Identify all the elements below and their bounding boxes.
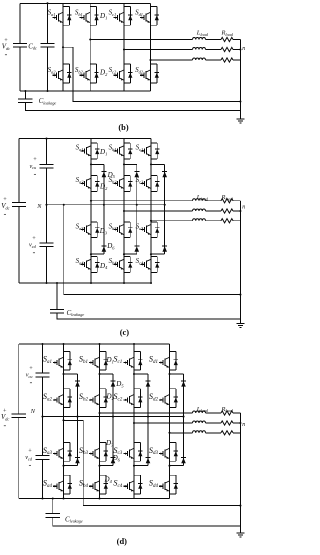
node: leg a on DC- rail (c): [90, 282, 92, 284]
wire: leg a collector riser (d): [63, 344, 65, 352]
node: leg a lower clamp junction (c): [90, 253, 92, 255]
wire: leg a S3-S4 link (d): [63, 461, 65, 475]
inductor L_load phase 2 (d): [193, 421, 206, 423]
wire: leg b lower clamp stub (d): [100, 465, 114, 467]
resistor R_load phase 3 (b): [221, 58, 233, 62]
node: leg a midpoint tap (d): [62, 419, 64, 421]
node: leg a clamp on N bus (d): [76, 416, 78, 418]
node: leg b clamp on N bus (d): [112, 416, 114, 418]
svg-text:Sb2: Sb2: [79, 392, 89, 402]
wire: leg d upper clamp stub (d): [170, 373, 184, 375]
wire: leg d upper clamp column (d): [183, 374, 185, 417]
wire: leg d lower clamp stub (d): [170, 465, 184, 467]
wire: load neutral vertical (c): [239, 201, 241, 323]
svg-text:+: +: [32, 235, 36, 242]
svg-text:D5: D5: [115, 380, 124, 388]
ground (b): [236, 119, 244, 123]
wire: Cdc column upper (b): [47, 3, 49, 43]
svg-text:Sb1: Sb1: [75, 8, 83, 16]
node: neutral tap junction (c): [63, 204, 65, 206]
clamp diode lower leg d (d): [181, 458, 186, 464]
wire: phase 3 to neutral node (b): [233, 59, 240, 61]
svg-text:Sd1: Sd1: [149, 355, 158, 365]
node: dc-link bottom (d): [41, 497, 43, 499]
capacitor C_leakage (b): [18, 99, 32, 103]
wire: leg a S3-S4 link (c): [90, 238, 92, 257]
node: leg c lower clamp junction (d): [133, 465, 135, 467]
node: neutral line junction (d): [239, 505, 241, 507]
wire: between L and R phase 1 (d): [206, 412, 222, 414]
wire: leg a upper clamp column (c): [103, 164, 105, 204]
node: leg d clamp on N bus (d): [182, 416, 184, 418]
wire: phase c output line (d): [134, 422, 193, 424]
wire: leg a to load neutral line (d): [64, 420, 241, 505]
wire: neutral clamp bus (d): [43, 416, 184, 418]
wire: phase b output line (d): [100, 412, 193, 414]
wire: leg a emitter to rail (c): [90, 272, 92, 283]
wire: phase 3 to neutral (c): [233, 220, 240, 222]
node: leg c clamp on N bus (c): [164, 204, 166, 206]
clamp diode upper leg b (c): [134, 171, 139, 177]
wire: leg a lower clamp stub (d): [64, 465, 78, 467]
node: leg a upper clamp junction (d): [62, 373, 64, 375]
IGBT S_b3 with antiparallel diode (d): [89, 443, 108, 462]
IGBT S_d1 with antiparallel diode (b): [140, 7, 159, 26]
node: leg d output (b): [149, 59, 151, 61]
wire: down to C_leakage (d): [52, 499, 54, 514]
IGBT S_c3 with antiparallel diode (c): [140, 222, 159, 238]
svg-text:Sa4: Sa4: [76, 257, 85, 265]
wire: leg b S1-S2 link (c): [123, 159, 125, 176]
IGBT S_b4 with antiparallel diode (d): [89, 475, 108, 494]
wire: leg c lower clamp stub (d): [134, 465, 148, 467]
resistor R_load phase 3 (c): [221, 219, 233, 223]
IGBT S_d3 with antiparallel diode (d): [159, 443, 178, 462]
node: leg b clamp on N bus (c): [136, 204, 138, 206]
wire: mid dc-link column (d): [42, 377, 44, 456]
clamp diode lower leg a (d): [75, 458, 80, 464]
wire: leg c collector riser (d): [133, 344, 135, 352]
wire: leg b collector riser (b): [89, 3, 91, 6]
wire: upper dc-link column (d): [42, 344, 44, 373]
wire: C_leakage to ground line (b): [25, 103, 240, 111]
node n junction (c): [239, 210, 241, 212]
wire: between L and R phase 2 (d): [206, 422, 222, 424]
wire: leg d lower clamp column (d): [183, 417, 185, 466]
wire: between L and R phase 3 (c): [206, 220, 222, 222]
svg-text:(b): (b): [118, 123, 128, 132]
svg-text:Cleakage: Cleakage: [67, 309, 85, 317]
svg-text:Cdc: Cdc: [28, 42, 37, 50]
wire: phase c output line (c): [151, 220, 193, 222]
inductor L_load phase 1 (d): [193, 411, 206, 413]
wire: left source column lower (c): [18, 206, 20, 283]
capacitor v_cu (d): [35, 373, 49, 377]
wire: leg b collector riser (d): [99, 344, 101, 352]
node: dc-link bottom (c): [45, 282, 47, 284]
wire: leg b emitter to rail (d): [99, 494, 101, 499]
wire: phase d output line (b): [151, 59, 193, 61]
IGBT S_d1 with antiparallel diode (d): [159, 352, 178, 371]
wire: DC+ top rail (b): [20, 2, 151, 4]
wire: leg d collector riser (b): [150, 3, 152, 6]
IGBT S_a3 with antiparallel diode (c): [80, 222, 99, 238]
wire: leg b collector riser (c): [123, 139, 125, 144]
node: leg b output (c): [123, 210, 125, 212]
wire: lower dc-link column (c): [46, 247, 48, 284]
wire: leg c midpoint wire (c): [150, 191, 152, 221]
wire: leg b emitter to rail (b): [89, 83, 91, 91]
svg-text:n: n: [242, 46, 245, 52]
IGBT S_c3 with antiparallel diode (d): [123, 443, 142, 462]
IGBT S_a2 with antiparallel diode (c): [80, 176, 99, 192]
svg-text:n: n: [242, 422, 245, 428]
IGBT S_c4 with antiparallel diode (d): [123, 475, 142, 494]
wire: leg a lower clamp stub (c): [91, 253, 104, 255]
wire: DC- bottom rail (d): [19, 498, 170, 500]
wire: DC- bottom rail (b): [20, 90, 151, 92]
svg-text:N: N: [36, 203, 42, 210]
wire: leg a S1-S2 link (d): [63, 370, 65, 389]
wire: leg c upper clamp column (c): [164, 164, 166, 204]
wire: leg c S3-S4 link (c): [150, 238, 152, 257]
IGBT S_b4 with antiparallel diode (c): [113, 257, 132, 273]
svg-text:n: n: [242, 205, 245, 211]
node: leg b on DC- rail (c): [123, 282, 125, 284]
node: dc-link top (d): [41, 343, 43, 345]
wire: neutral clamp bus (c): [47, 204, 165, 206]
IGBT S_a1 with antiparallel diode (d): [53, 352, 72, 371]
node: leg b on DC- rail (d): [98, 497, 100, 499]
wire: leg d collector riser (d): [169, 344, 171, 352]
wire: leg c collector riser (c): [150, 139, 152, 144]
wire: leg b S3-S4 link (c): [123, 238, 125, 257]
source Vdc (b): [13, 43, 27, 47]
wire: leg b S1-S2 link (d): [99, 370, 101, 389]
node: leg a midpoint (b): [62, 46, 64, 48]
node: neutral line junction (c): [239, 294, 241, 296]
clamp diode upper leg d (d): [181, 381, 186, 387]
svg-text:+: +: [28, 447, 32, 454]
wire: leg b lower clamp stub (c): [124, 253, 137, 255]
resistor R_load phase 1 (b): [221, 37, 233, 41]
wire: leg a upper clamp stub (d): [64, 373, 78, 375]
wire: leg b emitter to rail (c): [123, 272, 125, 283]
IGBT S_c1 with antiparallel diode (c): [140, 143, 159, 159]
wire: phase b output line (b): [90, 39, 192, 41]
inductor L_load phase 2 (b): [193, 47, 206, 49]
svg-text:Lload: Lload: [196, 29, 209, 36]
clamp diode lower leg b (d): [111, 458, 116, 464]
node: leg c clamp on N bus (d): [147, 416, 149, 418]
IGBT S_b2 with antiparallel diode (c): [113, 176, 132, 192]
svg-text:Sb1: Sb1: [109, 144, 117, 152]
wire: left DC source column lower (b): [19, 47, 21, 91]
svg-text:Sc2: Sc2: [109, 66, 117, 74]
svg-text:(d): (d): [117, 537, 127, 546]
wire: between L and R phase 1 (b): [206, 39, 222, 41]
node: leg c output (d): [133, 422, 135, 424]
wire: leg d emitter to rail (d): [169, 494, 171, 499]
capacitor v_cd (d): [35, 456, 49, 460]
IGBT S_c1 with antiparallel diode (b): [113, 7, 132, 26]
capacitor C_leakage (c): [50, 310, 64, 314]
svg-text:D4: D4: [99, 262, 108, 270]
node: leg d output (d): [168, 432, 170, 434]
svg-text:+: +: [33, 156, 37, 163]
wire: between L and R phase 3 (d): [206, 432, 222, 434]
wire: Cdc column lower (b): [47, 47, 49, 91]
clamp diode lower leg c (c): [162, 246, 167, 252]
IGBT S_a2 with antiparallel diode (b): [52, 64, 71, 83]
svg-text:Sd3: Sd3: [149, 446, 159, 456]
svg-text:-: -: [5, 50, 8, 59]
svg-text:Rload: Rload: [221, 406, 234, 413]
inductor L_load phase 2 (c): [193, 209, 206, 211]
svg-text:Cleakage: Cleakage: [65, 515, 83, 523]
node: C_leakage tap (d): [52, 497, 54, 499]
wire: leg c upper clamp column (d): [147, 374, 149, 417]
node: leg d lower clamp junction (d): [168, 465, 170, 467]
resistor R_load phase 3 (d): [221, 431, 233, 435]
IGBT S_d2 with antiparallel diode (b): [140, 64, 159, 83]
svg-text:Lload: Lload: [196, 406, 209, 413]
svg-text:D5: D5: [107, 171, 116, 179]
node: leg a on DC- rail (d): [62, 497, 64, 499]
node: leg c upper clamp junction (d): [133, 373, 135, 375]
IGBT S_b1 with antiparallel diode (d): [89, 352, 108, 371]
node: C_leakage tap (c): [56, 282, 58, 284]
wire: phase a output line (c): [91, 200, 193, 202]
wire: leg b upper clamp column (c): [136, 164, 138, 204]
clamp diode upper leg c (d): [146, 381, 151, 387]
svg-text:-: -: [34, 169, 37, 178]
svg-text:D4: D4: [104, 476, 113, 484]
svg-text:Sb4: Sb4: [109, 257, 118, 265]
node: leg c on DC- rail (c): [150, 282, 152, 284]
node: leg b lower clamp junction (c): [123, 253, 125, 255]
wire: down to C_leakage (b): [24, 91, 26, 99]
svg-text:D1: D1: [99, 12, 107, 20]
node: leg b output (b): [89, 38, 91, 40]
IGBT S_a1 with antiparallel diode (b): [52, 7, 71, 26]
inductor L_load phase 3 (b): [193, 58, 206, 60]
wire: between L and R phase 1 (c): [206, 200, 222, 202]
node: leg a on top rail (d): [62, 343, 64, 345]
svg-text:Sb2: Sb2: [75, 66, 84, 74]
node: leg d upper clamp junction (d): [168, 373, 170, 375]
clamp diode upper leg c (c): [162, 171, 167, 177]
IGBT S_c2 with antiparallel diode (c): [140, 176, 159, 192]
svg-text:Sd4: Sd4: [149, 478, 159, 488]
node n junction (d): [239, 422, 241, 424]
svg-text:D2: D2: [99, 183, 108, 191]
wire: between L and R phase 2 (b): [206, 49, 222, 51]
svg-text:Sd1: Sd1: [135, 8, 143, 16]
node: leg b lower clamp junction (d): [98, 465, 100, 467]
node: neutral/ground junction (b): [239, 100, 241, 102]
wire: leg c S1-S2 link (c): [150, 159, 152, 176]
wire: left source column lower (d): [18, 418, 20, 499]
IGBT S_c1 with antiparallel diode (d): [123, 352, 142, 371]
wire: leg a collector riser (b): [62, 3, 64, 6]
IGBT S_b2 with antiparallel diode (d): [89, 389, 108, 408]
svg-text:-: -: [30, 378, 33, 387]
ground (c): [236, 324, 244, 328]
clamp diode lower leg c (d): [146, 458, 151, 464]
svg-text:Sc1: Sc1: [109, 8, 117, 16]
source Vdc (c): [12, 203, 26, 207]
node: leg a lower clamp junction (d): [62, 465, 64, 467]
wire: leg c S1-S2 link (d): [133, 370, 135, 389]
wire: leg c S3-S4 link (d): [133, 461, 135, 475]
svg-text:Sc4: Sc4: [136, 257, 144, 265]
node: leg b upper clamp junction (c): [123, 163, 125, 165]
node: leg c output (c): [150, 220, 152, 222]
node: leg c output (b): [123, 48, 125, 50]
svg-text:Sc1: Sc1: [113, 355, 122, 365]
node N (d): [41, 416, 43, 418]
wire: leg d S3-S4 link (d): [169, 461, 171, 475]
wire: leg b upper clamp stub (c): [124, 163, 137, 165]
clamp diode lower leg a (c): [101, 246, 106, 252]
wire: leg a midpoint to neutral/ground line (b): [63, 47, 240, 101]
svg-text:-: -: [33, 248, 36, 257]
node: leg b on top rail (d): [98, 343, 100, 345]
wire: leg b midpoint wire (d): [99, 407, 101, 442]
svg-text:D6: D6: [106, 242, 115, 250]
wire: between L and R phase 3 (b): [206, 59, 222, 61]
inductor L_load phase 1 (c): [193, 199, 206, 201]
node: leg a clamp on N bus (c): [103, 204, 105, 206]
wire: leg d emitter to rail (b): [150, 83, 152, 91]
svg-text:-: -: [29, 461, 32, 470]
wire: leg c emitter to rail (d): [133, 494, 135, 499]
wire: leg c midpoint wire (b): [123, 25, 125, 64]
capacitor C_leakage (d): [46, 514, 60, 518]
node: leg c upper clamp junction (c): [150, 163, 152, 165]
svg-text:Lload: Lload: [196, 194, 209, 201]
svg-text:Sa1: Sa1: [76, 144, 84, 152]
wire: phase 1 to neutral (d): [233, 412, 240, 414]
wire: phase 3 to neutral (d): [233, 432, 240, 434]
svg-text:Sc4: Sc4: [113, 478, 122, 488]
node N (c): [45, 204, 47, 206]
wire: phase c output line (b): [124, 49, 193, 51]
svg-text:Sa1: Sa1: [43, 355, 52, 365]
wire: leg d S1-S2 link (d): [169, 370, 171, 389]
node: leg a output (c): [90, 200, 92, 202]
wire: leg a S1-S2 link (c): [90, 159, 92, 176]
wire: leg b midpoint wire (b): [89, 25, 91, 64]
node: leg c lower clamp junction (c): [150, 253, 152, 255]
svg-text:-: -: [3, 421, 6, 430]
wire: leg a lower clamp column (d): [77, 417, 79, 466]
svg-text:-: -: [4, 209, 7, 218]
wire: leg b S3-S4 link (d): [99, 461, 101, 475]
wire: leg a collector riser (c): [90, 139, 92, 144]
svg-text:Sc3: Sc3: [136, 222, 144, 230]
wire: phase d output line (d): [170, 432, 193, 434]
node: dc-link top (c): [45, 138, 47, 140]
svg-text:Sb1: Sb1: [79, 355, 88, 365]
capacitor v_cu (c): [39, 164, 53, 168]
svg-text:Sc2: Sc2: [113, 392, 122, 402]
IGBT S_d2 with antiparallel diode (d): [159, 389, 178, 408]
wire: load neutral vertical (b): [239, 40, 241, 119]
capacitor v_cd (c): [39, 243, 53, 247]
node: leg a upper clamp junction (c): [90, 163, 92, 165]
svg-text:Cleakage: Cleakage: [39, 97, 57, 105]
node: leg b upper clamp junction (d): [98, 373, 100, 375]
wire: leg a upper clamp stub (c): [91, 163, 104, 165]
inductor L_load phase 1 (b): [193, 37, 206, 39]
wire: leg a midpoint wire (c): [90, 191, 92, 221]
resistor R_load phase 2 (b): [221, 47, 233, 51]
resistor R_load phase 1 (c): [221, 199, 233, 203]
IGBT S_b1 with antiparallel diode (c): [113, 143, 132, 159]
clamp diode upper leg a (c): [101, 171, 106, 177]
wire: leg c upper clamp stub (d): [134, 373, 148, 375]
resistor R_load phase 1 (d): [221, 411, 233, 415]
wire: lower dc-link column (d): [42, 459, 44, 498]
svg-text:Sa2: Sa2: [76, 176, 85, 184]
svg-text:Sa3: Sa3: [76, 222, 85, 230]
wire: leg c collector riser (b): [123, 3, 125, 6]
wire: leg a lower clamp column (c): [103, 205, 105, 254]
wire: phase 2 to neutral (d): [233, 422, 240, 424]
svg-text:Sa2: Sa2: [43, 392, 53, 402]
wire: upper dc-link column (c): [46, 139, 48, 165]
wire: leg d midpoint wire (b): [150, 25, 152, 64]
wire: leg c lower clamp stub (c): [151, 253, 165, 255]
node: leg b output (d): [98, 412, 100, 414]
IGBT S_b1 with antiparallel diode (b): [80, 7, 99, 26]
IGBT S_c4 with antiparallel diode (c): [140, 257, 159, 273]
wire: DC+ top rail (d): [19, 343, 170, 345]
wire: DC- bottom rail (c): [19, 282, 151, 284]
wire: leg c emitter to rail (b): [123, 83, 125, 91]
wire: leg a upper clamp column (d): [77, 374, 79, 417]
svg-text:D2: D2: [99, 69, 108, 77]
svg-text:Sb3: Sb3: [109, 222, 118, 230]
wire: leg d midpoint wire (d): [169, 407, 171, 442]
IGBT S_a4 with antiparallel diode (d): [53, 475, 72, 494]
IGBT S_b2 with antiparallel diode (b): [80, 64, 99, 83]
node: C_leakage tap on DC- rail (b): [24, 90, 26, 92]
wire: leg c lower clamp column (c): [164, 205, 166, 254]
wire: phase 2 to neutral node (b): [233, 49, 240, 51]
clamp diode lower leg b (c): [134, 246, 139, 252]
svg-text:Rload: Rload: [221, 29, 234, 36]
IGBT S_d4 with antiparallel diode (d): [159, 475, 178, 494]
ground (d): [236, 533, 244, 537]
wire: load neutral vertical (d): [239, 413, 241, 532]
svg-text:Sd2: Sd2: [149, 392, 159, 402]
resistor R_load phase 2 (c): [221, 209, 233, 213]
wire: N to load neutral line (c): [64, 205, 241, 295]
node: Cdc top junction (b): [46, 2, 48, 4]
wire: left source column upper (d): [18, 344, 20, 414]
wire: phase 1 to neutral (c): [233, 200, 240, 202]
wire: leg a emitter to rail (b): [62, 83, 64, 91]
svg-text:Sa3: Sa3: [43, 446, 53, 456]
wire: leg c lower clamp column (d): [147, 417, 149, 466]
wire: leg b lower clamp column (c): [136, 205, 138, 254]
wire: leg c upper clamp stub (c): [151, 163, 165, 165]
svg-text:Rload: Rload: [221, 194, 234, 201]
node: Cdc bottom junction (b): [46, 90, 48, 92]
